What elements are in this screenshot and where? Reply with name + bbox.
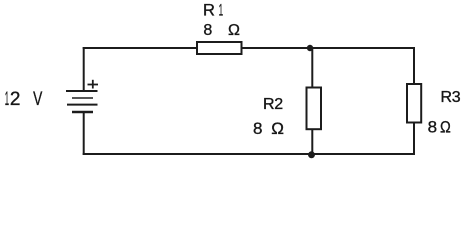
svg-text:Ω: Ω xyxy=(440,118,451,137)
svg-text:8: 8 xyxy=(203,22,212,39)
svg-text:8: 8 xyxy=(428,118,437,137)
svg-text:1: 1 xyxy=(219,2,224,20)
svg-text:8: 8 xyxy=(253,119,262,138)
svg-text:2: 2 xyxy=(274,96,283,113)
svg-text:Ω: Ω xyxy=(271,119,284,138)
svg-text:1: 1 xyxy=(5,89,9,110)
svg-text:R: R xyxy=(203,2,215,20)
svg-text:R: R xyxy=(263,96,275,113)
svg-text:R: R xyxy=(441,89,453,106)
svg-text:2: 2 xyxy=(10,89,21,110)
svg-text:Ω: Ω xyxy=(228,22,240,39)
svg-text:V: V xyxy=(33,89,42,110)
svg-text:3: 3 xyxy=(452,89,461,106)
